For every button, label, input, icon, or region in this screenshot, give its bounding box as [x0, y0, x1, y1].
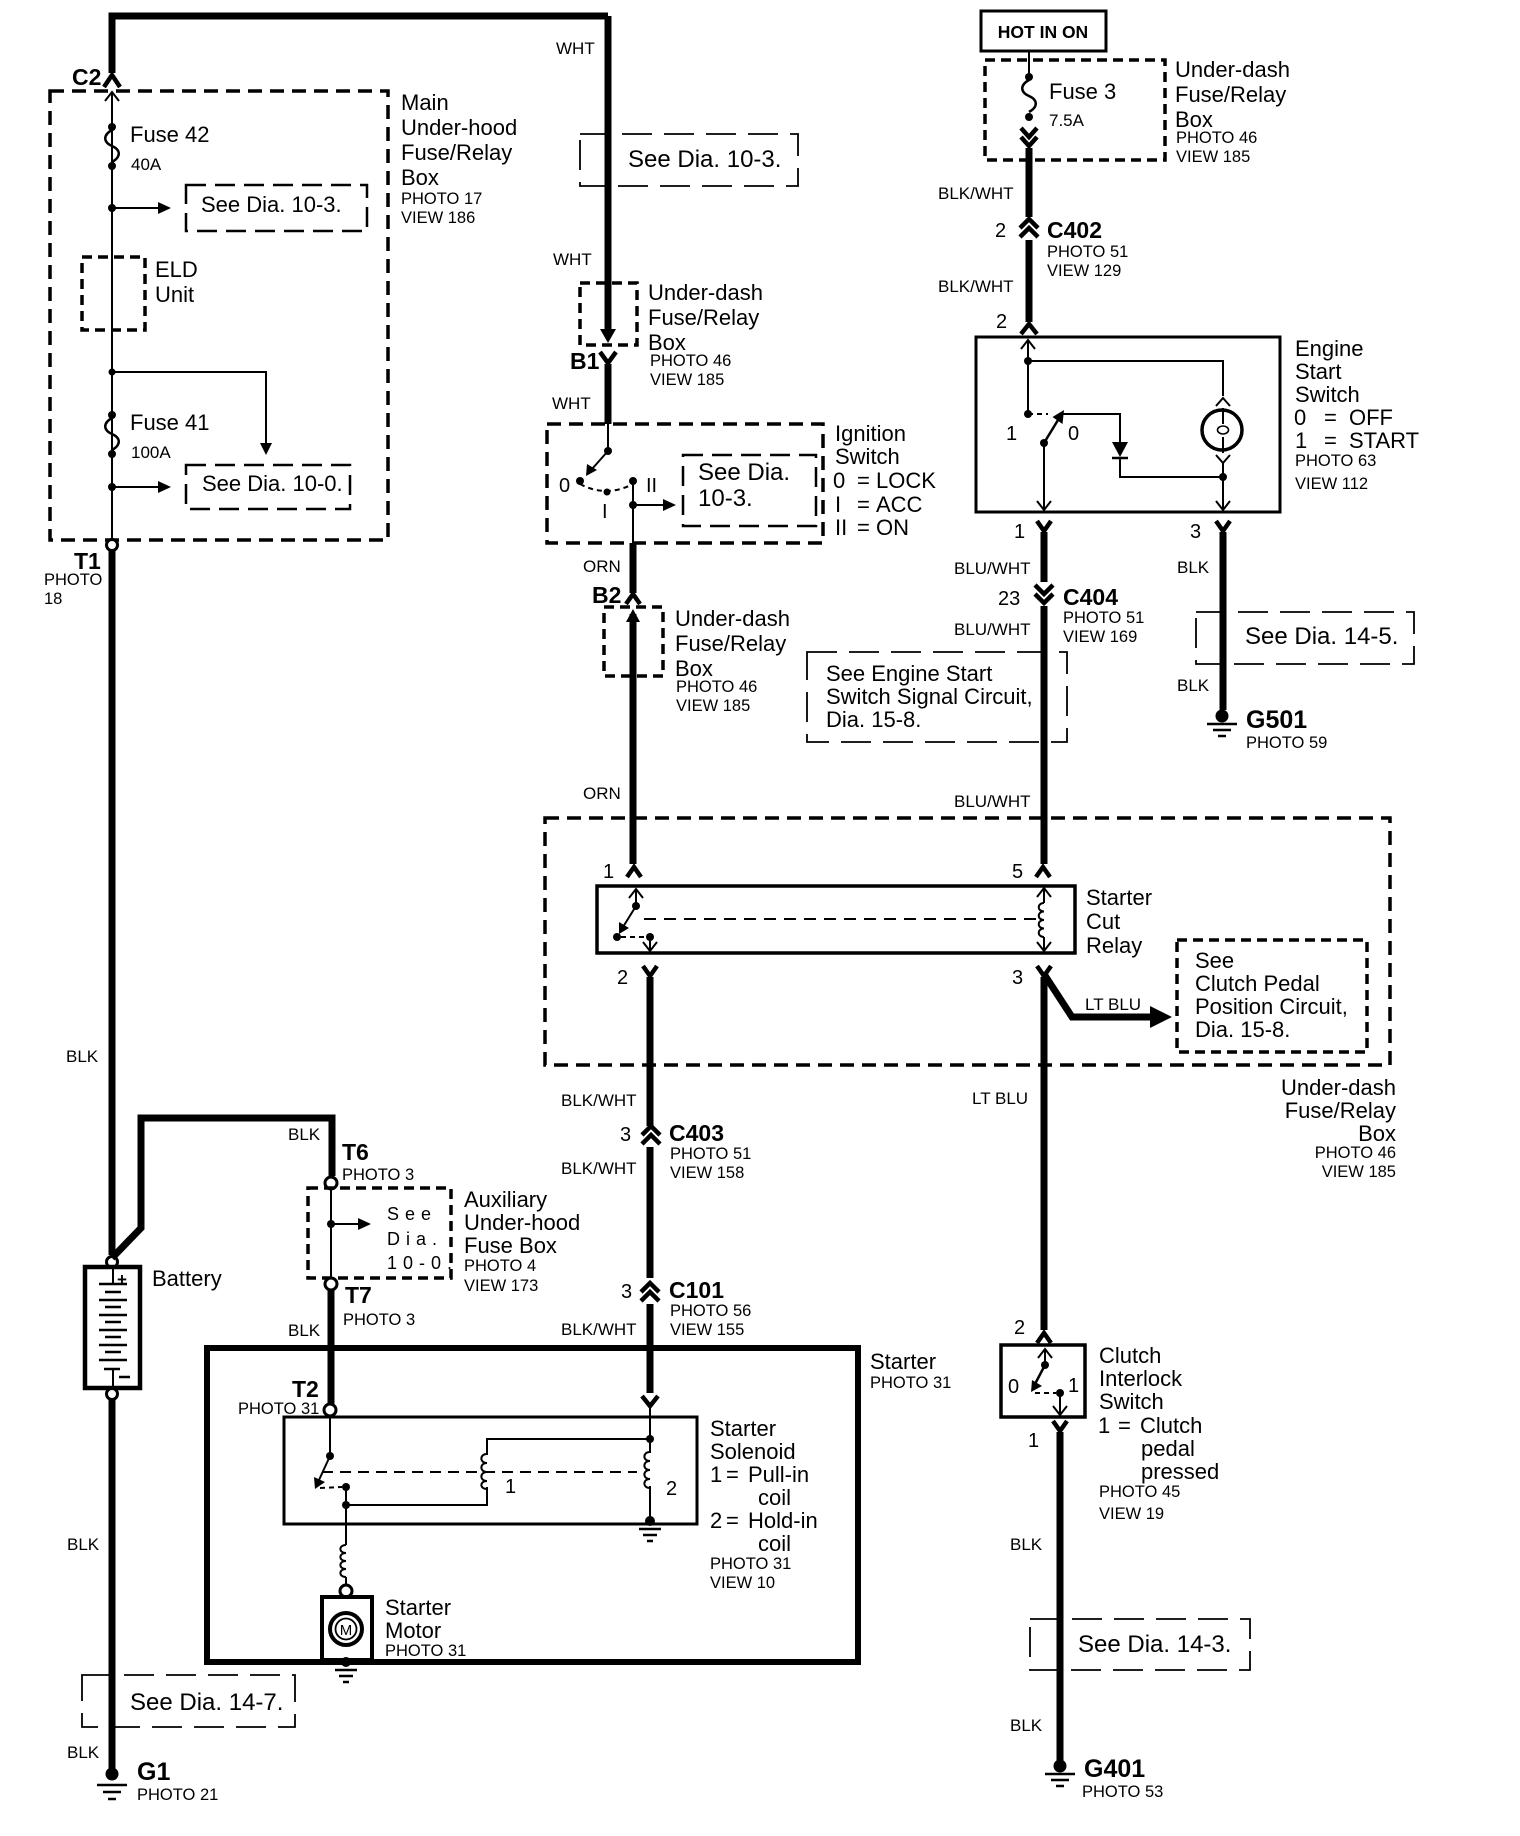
svg-text:BLK: BLK	[288, 1125, 321, 1144]
svg-text:=: =	[1118, 1413, 1131, 1438]
svg-text:Position Circuit,: Position Circuit,	[1195, 994, 1348, 1019]
svg-text:Cut: Cut	[1086, 909, 1120, 934]
svg-text:PHOTO 46: PHOTO 46	[650, 352, 731, 370]
svg-text:BLK/WHT: BLK/WHT	[561, 1320, 637, 1339]
svg-text:Interlock: Interlock	[1099, 1366, 1183, 1391]
svg-text:Clutch: Clutch	[1140, 1413, 1202, 1438]
svg-text:2: 2	[1014, 1317, 1025, 1339]
svg-text:Start: Start	[1295, 359, 1341, 384]
svg-text:PHOTO 51: PHOTO 51	[670, 1145, 751, 1163]
svg-text:0: 0	[833, 468, 845, 493]
svg-text:VIEW 112: VIEW 112	[1295, 475, 1368, 493]
svg-text:VIEW 185: VIEW 185	[650, 371, 724, 389]
svg-text:PHOTO 53: PHOTO 53	[1082, 1783, 1163, 1801]
svg-text:Starter: Starter	[870, 1349, 936, 1374]
svg-text:I: I	[602, 501, 608, 523]
svg-text:See Dia. 10-3.: See Dia. 10-3.	[628, 146, 781, 173]
svg-text:1: 1	[1006, 423, 1017, 445]
svg-text:0: 0	[1068, 423, 1079, 445]
svg-text:BLK/WHT: BLK/WHT	[938, 277, 1014, 296]
svg-text:LT BLU: LT BLU	[972, 1089, 1028, 1108]
svg-text:=: =	[857, 468, 870, 493]
svg-text:PHOTO 3: PHOTO 3	[343, 1311, 415, 1329]
svg-text:=: =	[1324, 428, 1337, 453]
svg-text:C101: C101	[669, 1277, 724, 1303]
svg-text:PHOTO 31: PHOTO 31	[710, 1555, 791, 1573]
svg-text:WHT: WHT	[552, 394, 591, 413]
svg-text:C404: C404	[1063, 584, 1118, 610]
svg-text:G1: G1	[137, 1758, 170, 1786]
svg-text:Fuse/Relay: Fuse/Relay	[1285, 1098, 1396, 1123]
svg-text:VIEW 19: VIEW 19	[1099, 1505, 1164, 1523]
svg-text:Pull-in: Pull-in	[748, 1462, 809, 1487]
svg-text:BLU/WHT: BLU/WHT	[954, 792, 1031, 811]
svg-text:T7: T7	[345, 1282, 372, 1308]
svg-text:Fuse Box: Fuse Box	[464, 1233, 557, 1258]
svg-text:PHOTO 21: PHOTO 21	[137, 1786, 218, 1804]
svg-text:C402: C402	[1047, 217, 1102, 243]
svg-text:See Dia. 14-7.: See Dia. 14-7.	[130, 1689, 283, 1716]
svg-text:Starter: Starter	[1086, 885, 1152, 910]
svg-text:ELD: ELD	[155, 257, 198, 282]
svg-text:Switch: Switch	[1099, 1389, 1164, 1414]
svg-text:PHOTO 46: PHOTO 46	[1315, 1144, 1396, 1162]
svg-text:Under-hood: Under-hood	[401, 115, 517, 140]
svg-text:Unit: Unit	[155, 282, 194, 307]
svg-text:VIEW 185: VIEW 185	[676, 697, 750, 715]
svg-text:ORN: ORN	[583, 557, 621, 576]
svg-text:BLK: BLK	[1177, 676, 1210, 695]
svg-text:C403: C403	[669, 1120, 724, 1146]
svg-text:2: 2	[996, 311, 1007, 333]
svg-text:Under-dash: Under-dash	[1175, 57, 1290, 82]
svg-text:BLK/WHT: BLK/WHT	[938, 184, 1014, 203]
svg-text:BLK: BLK	[66, 1047, 99, 1066]
svg-text:Fuse/Relay: Fuse/Relay	[675, 631, 786, 656]
svg-text:+: +	[117, 1270, 127, 1289]
svg-text:Fuse 41: Fuse 41	[130, 410, 210, 435]
svg-text:HOT IN ON: HOT IN ON	[998, 22, 1088, 42]
svg-text:Box: Box	[1358, 1121, 1396, 1146]
svg-text:2: 2	[995, 220, 1006, 242]
svg-text:LOCK: LOCK	[876, 468, 936, 493]
svg-text:5: 5	[1012, 861, 1023, 883]
svg-text:Switch Signal Circuit,: Switch Signal Circuit,	[826, 684, 1033, 709]
svg-text:23: 23	[998, 588, 1020, 610]
svg-text:See Dia. 10-3.: See Dia. 10-3.	[201, 192, 342, 217]
svg-text:PHOTO 51: PHOTO 51	[1063, 609, 1144, 627]
svg-text:Clutch: Clutch	[1099, 1343, 1161, 1368]
svg-text:S e e: S e e	[387, 1204, 432, 1224]
svg-text:D i a .: D i a .	[387, 1229, 438, 1249]
svg-text:Under-hood: Under-hood	[464, 1210, 580, 1235]
svg-text:VIEW 173: VIEW 173	[464, 1277, 538, 1295]
svg-text:VIEW 10: VIEW 10	[710, 1574, 775, 1592]
svg-text:1: 1	[1295, 428, 1307, 453]
svg-text:See: See	[1195, 948, 1234, 973]
svg-text:Relay: Relay	[1086, 933, 1142, 958]
svg-text:PHOTO 63: PHOTO 63	[1295, 452, 1376, 470]
svg-text:Starter: Starter	[710, 1416, 776, 1441]
svg-text:Dia. 15-8.: Dia. 15-8.	[826, 707, 921, 732]
svg-text:G401: G401	[1084, 1755, 1145, 1783]
svg-text:Motor: Motor	[385, 1618, 441, 1643]
svg-text:PHOTO 46: PHOTO 46	[676, 678, 757, 696]
svg-text:Fuse 3: Fuse 3	[1049, 79, 1116, 104]
svg-text:Hold-in: Hold-in	[748, 1508, 818, 1533]
svg-text:B2: B2	[592, 582, 621, 608]
svg-text:VIEW 186: VIEW 186	[401, 209, 475, 227]
svg-text:BLK: BLK	[67, 1743, 100, 1762]
svg-text:2: 2	[617, 967, 628, 989]
svg-text:BLU/WHT: BLU/WHT	[954, 620, 1031, 639]
svg-text:PHOTO 31: PHOTO 31	[238, 1400, 319, 1418]
svg-text:=: =	[726, 1462, 739, 1487]
svg-text:PHOTO 31: PHOTO 31	[870, 1374, 951, 1392]
svg-text:1 0 - 0 .: 1 0 - 0 .	[387, 1253, 453, 1273]
svg-text:Clutch Pedal: Clutch Pedal	[1195, 971, 1320, 996]
svg-text:See Dia. 10-0.: See Dia. 10-0.	[202, 471, 343, 496]
svg-text:Under-dash: Under-dash	[675, 606, 790, 631]
svg-text:2: 2	[666, 1478, 677, 1500]
svg-text:Under-dash: Under-dash	[1281, 1075, 1396, 1100]
svg-text:Ignition: Ignition	[835, 421, 906, 446]
svg-text:1: 1	[1028, 1430, 1039, 1452]
svg-text:Fuse/Relay: Fuse/Relay	[401, 140, 512, 165]
svg-text:VIEW 185: VIEW 185	[1322, 1163, 1396, 1181]
svg-text:Box: Box	[401, 165, 439, 190]
svg-text:Battery: Battery	[152, 1266, 222, 1291]
svg-text:Auxiliary: Auxiliary	[464, 1187, 547, 1212]
svg-text:PHOTO 4: PHOTO 4	[464, 1257, 536, 1275]
svg-text:ACC: ACC	[876, 492, 923, 517]
svg-text:0: 0	[1294, 405, 1306, 430]
svg-text:Dia. 15-8.: Dia. 15-8.	[1195, 1017, 1290, 1042]
svg-text:7.5A: 7.5A	[1049, 111, 1085, 130]
svg-text:Fuse 42: Fuse 42	[130, 122, 210, 147]
svg-text:I: I	[835, 492, 841, 517]
svg-text:1: 1	[603, 861, 614, 883]
svg-text:WHT: WHT	[556, 39, 595, 58]
svg-text:1: 1	[505, 1476, 516, 1498]
svg-text:=: =	[857, 492, 870, 517]
svg-text:PHOTO 59: PHOTO 59	[1246, 734, 1327, 752]
svg-text:B1: B1	[570, 348, 600, 374]
svg-text:100A: 100A	[131, 443, 171, 462]
svg-text:Main: Main	[401, 90, 449, 115]
svg-text:coil: coil	[758, 1531, 791, 1556]
svg-text:C2: C2	[72, 64, 101, 90]
svg-text:0: 0	[1008, 1376, 1019, 1398]
svg-text:1: 1	[1098, 1413, 1110, 1438]
svg-text:2: 2	[710, 1508, 722, 1533]
svg-text:M: M	[340, 1622, 353, 1639]
svg-text:START: START	[1349, 428, 1419, 453]
svg-text:ORN: ORN	[583, 784, 621, 803]
svg-text:40A: 40A	[131, 155, 162, 174]
svg-text:3: 3	[1012, 967, 1023, 989]
svg-text:II: II	[646, 475, 657, 497]
svg-text:BLK/WHT: BLK/WHT	[561, 1159, 637, 1178]
svg-text:Fuse/Relay: Fuse/Relay	[648, 305, 759, 330]
svg-text:T2: T2	[292, 1376, 319, 1402]
svg-text:0: 0	[559, 475, 570, 497]
svg-text:See Dia. 14-5.: See Dia. 14-5.	[1245, 623, 1398, 650]
svg-text:Switch: Switch	[1295, 382, 1360, 407]
svg-text:Under-dash: Under-dash	[648, 280, 763, 305]
svg-text:PHOTO 46: PHOTO 46	[1176, 129, 1257, 147]
svg-text:LT BLU: LT BLU	[1085, 995, 1141, 1014]
svg-text:BLK/WHT: BLK/WHT	[561, 1091, 637, 1110]
svg-text:=: =	[1324, 405, 1337, 430]
svg-text:pedal: pedal	[1141, 1436, 1195, 1461]
svg-text:WHT: WHT	[553, 250, 592, 269]
svg-text:3: 3	[621, 1281, 632, 1303]
svg-text:Solenoid: Solenoid	[710, 1439, 796, 1464]
svg-text:PHOTO 3: PHOTO 3	[342, 1166, 414, 1184]
svg-text:BLU/WHT: BLU/WHT	[954, 559, 1031, 578]
svg-text:1: 1	[710, 1462, 722, 1487]
svg-text:Engine: Engine	[1295, 336, 1364, 361]
svg-text:3: 3	[1190, 521, 1201, 543]
svg-text:PHOTO 17: PHOTO 17	[401, 190, 482, 208]
svg-text:Starter: Starter	[385, 1595, 451, 1620]
svg-text:PHOTO 51: PHOTO 51	[1047, 243, 1128, 261]
svg-text:T6: T6	[342, 1139, 369, 1165]
svg-text:PHOTO 31: PHOTO 31	[385, 1642, 466, 1660]
svg-text:BLK: BLK	[1010, 1716, 1043, 1735]
svg-text:BLK: BLK	[288, 1321, 321, 1340]
svg-text:18: 18	[44, 590, 62, 608]
svg-text:pressed: pressed	[1141, 1459, 1219, 1484]
svg-text:See Dia. 14-3.: See Dia. 14-3.	[1078, 1631, 1231, 1658]
svg-text:Switch: Switch	[835, 444, 900, 469]
svg-text:VIEW 158: VIEW 158	[670, 1164, 744, 1182]
svg-text:OFF: OFF	[1349, 405, 1393, 430]
svg-text:VIEW 169: VIEW 169	[1063, 628, 1137, 646]
svg-text:=: =	[857, 515, 870, 540]
svg-text:10-3.: 10-3.	[698, 485, 753, 512]
svg-text:=: =	[726, 1508, 739, 1533]
svg-text:PHOTO: PHOTO	[44, 571, 103, 589]
svg-text:II: II	[835, 515, 847, 540]
svg-text:Fuse/Relay: Fuse/Relay	[1175, 82, 1286, 107]
svg-text:BLK: BLK	[1177, 558, 1210, 577]
svg-text:ON: ON	[876, 515, 909, 540]
svg-text:PHOTO 45: PHOTO 45	[1099, 1483, 1180, 1501]
svg-text:1: 1	[1068, 1375, 1079, 1397]
svg-text:BLK: BLK	[67, 1535, 100, 1554]
svg-text:See Engine Start: See Engine Start	[826, 661, 992, 686]
svg-text:BLK: BLK	[1010, 1535, 1043, 1554]
svg-text:PHOTO 56: PHOTO 56	[670, 1302, 751, 1320]
svg-text:coil: coil	[758, 1485, 791, 1510]
svg-text:VIEW 129: VIEW 129	[1047, 262, 1121, 280]
svg-text:VIEW 155: VIEW 155	[670, 1321, 744, 1339]
svg-text:See Dia.: See Dia.	[698, 459, 790, 486]
svg-text:G501: G501	[1246, 706, 1307, 734]
svg-text:1: 1	[1014, 521, 1025, 543]
svg-text:3: 3	[620, 1124, 631, 1146]
svg-text:VIEW 185: VIEW 185	[1176, 148, 1250, 166]
